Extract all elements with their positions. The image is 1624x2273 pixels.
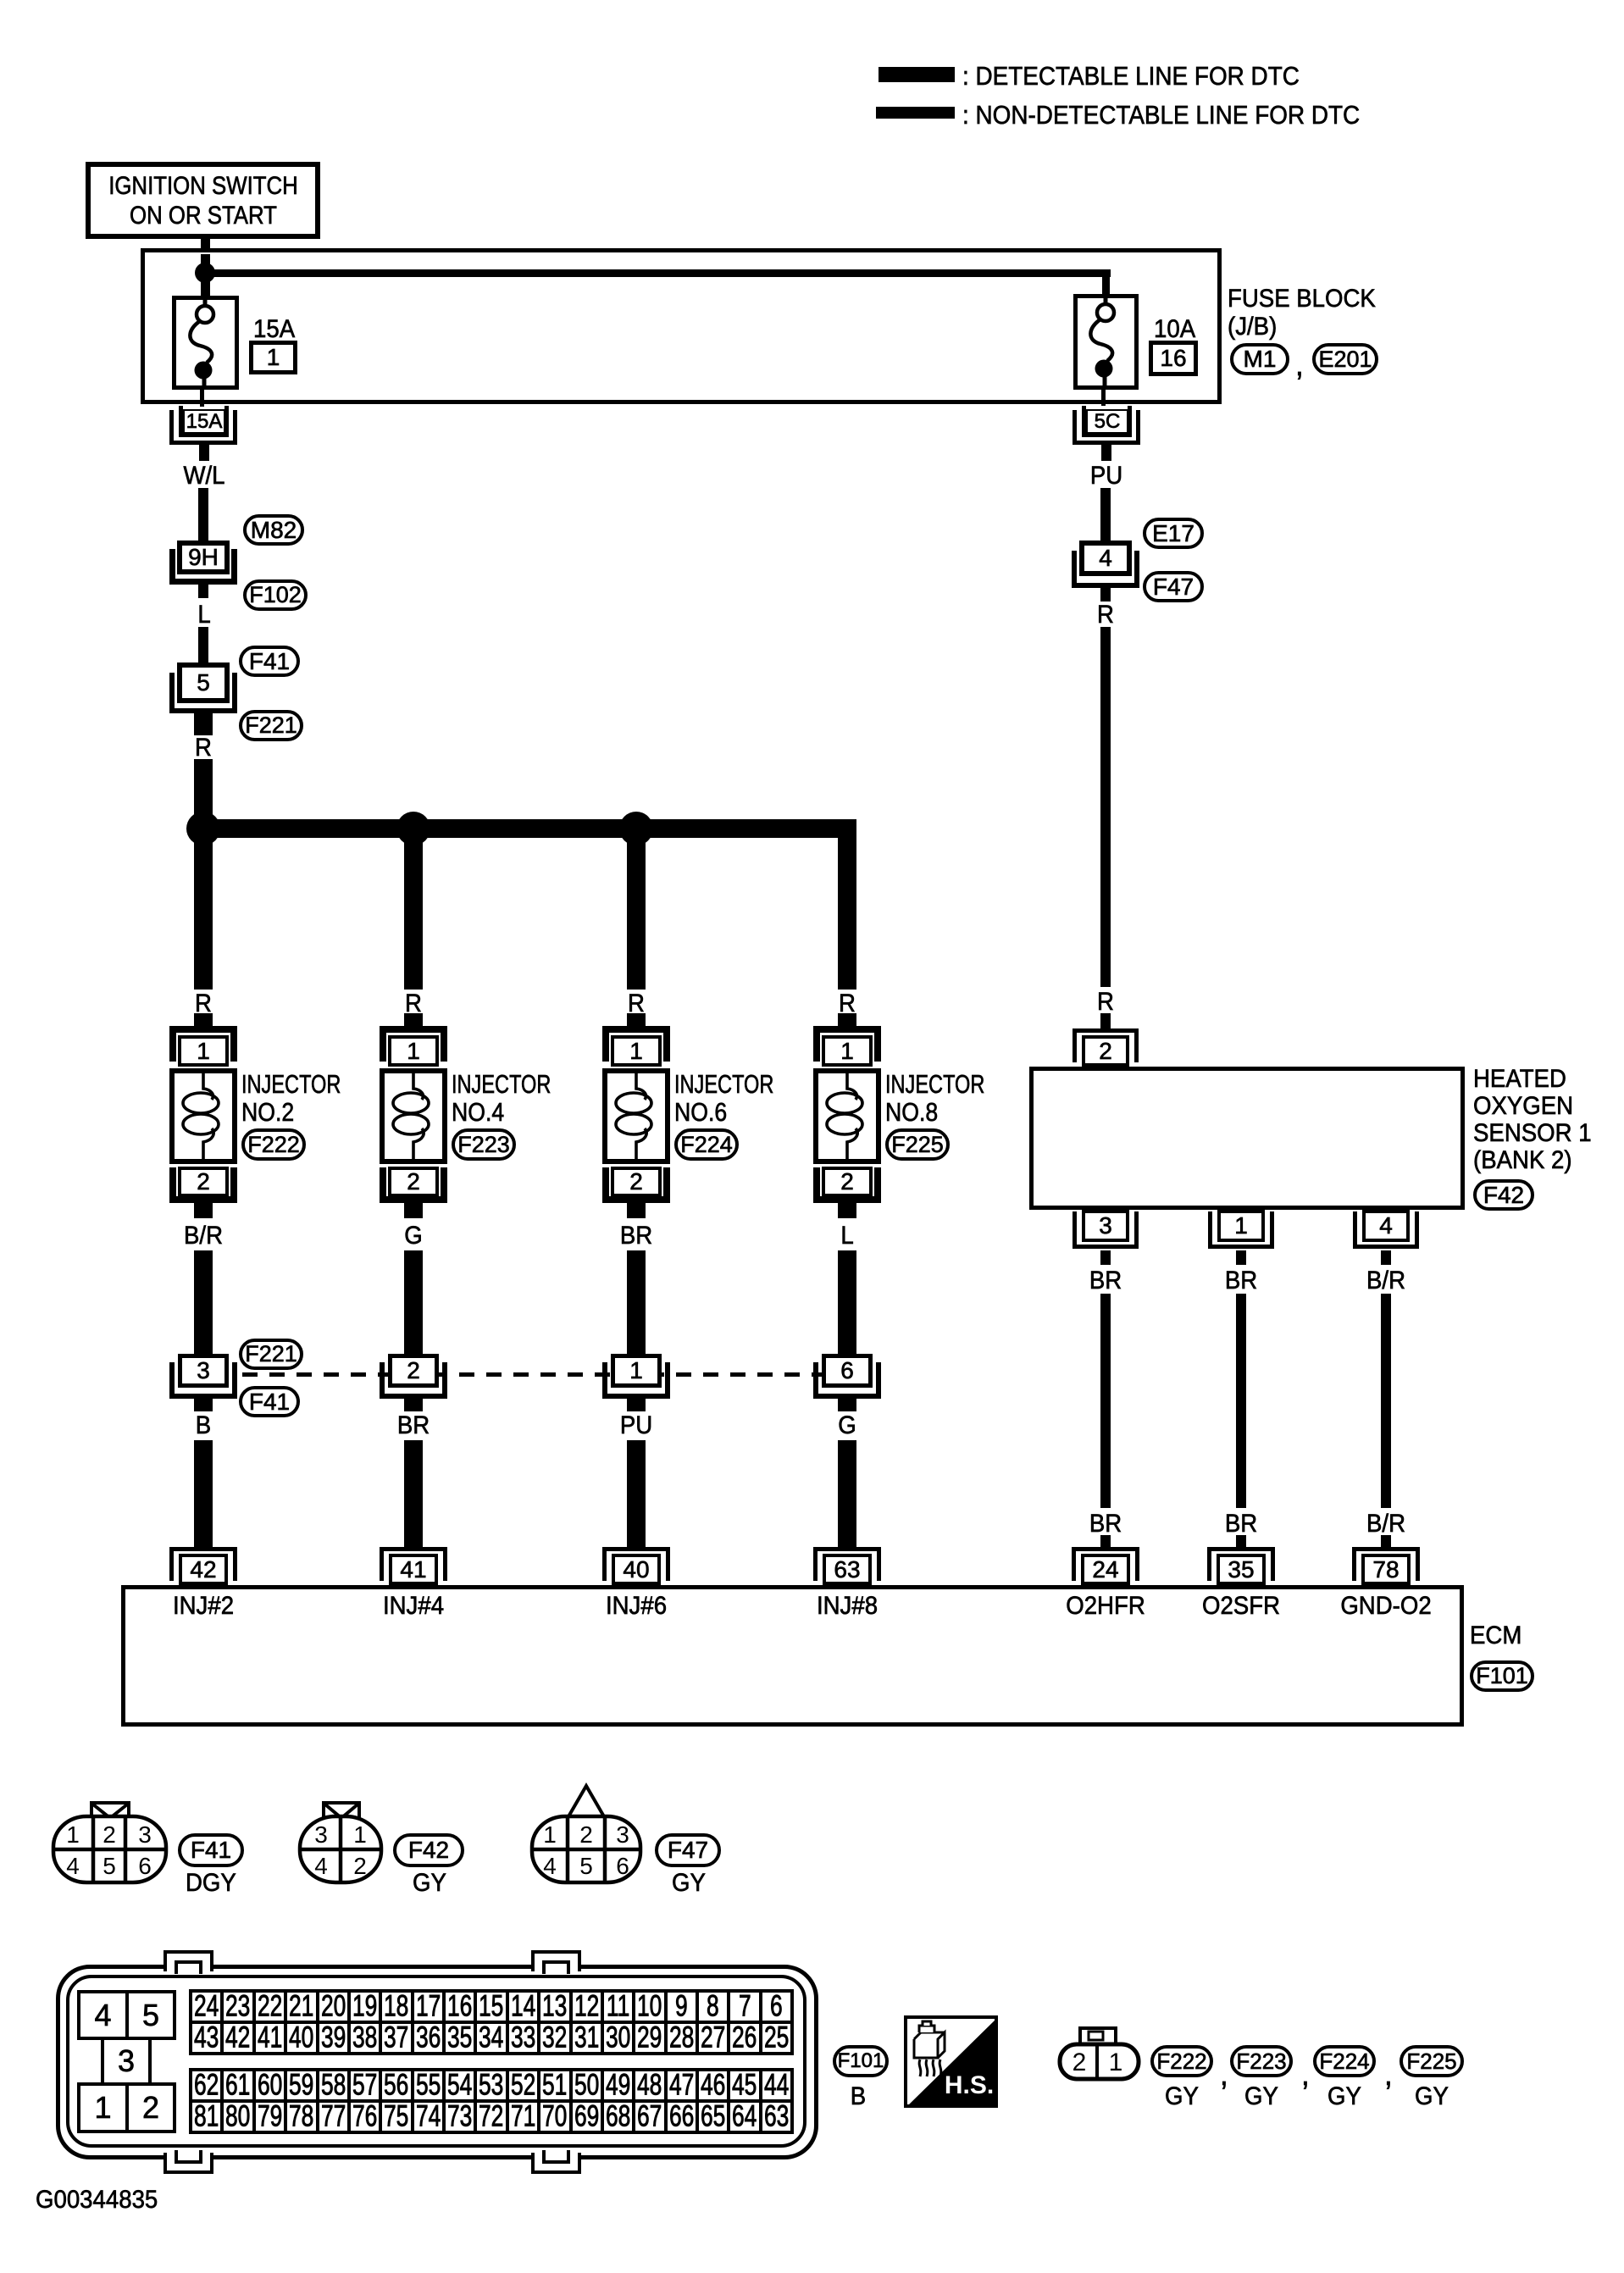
- ECM terminal name O2HFR: [1066, 1594, 1145, 1619]
- wire drop to 10A fuse: [1102, 269, 1110, 305]
- injector 6 coil winding: [602, 1068, 670, 1164]
- ECM connector top tab: [531, 1950, 581, 1971]
- injector 8 bottom bracket: [813, 1167, 881, 1203]
- connector face 2|1: [1055, 2025, 1148, 2084]
- svg-text:4: 4: [314, 1853, 328, 1879]
- wire stub below 9H: [198, 585, 208, 598]
- fuse 1 element: [172, 296, 239, 390]
- ECM connector face inner outline: [66, 1975, 806, 2148]
- fuse 1 15A body: [172, 296, 239, 390]
- wire color above ECM col5: [1089, 1511, 1122, 1537]
- svg-text:4: 4: [543, 1853, 557, 1879]
- sensor label line 3: [1473, 1121, 1592, 1146]
- injector 2 pin 1: [178, 1035, 229, 1067]
- ECM pin 35 outer bracket: [1207, 1547, 1275, 1581]
- comma 3: [1384, 2059, 1393, 2091]
- injector 8 top bracket: [813, 1026, 881, 1062]
- wire stub below O2 pin 4: [1381, 1250, 1391, 1265]
- connector ref E17: [1143, 518, 1204, 549]
- injector 4 top bracket: [380, 1026, 447, 1062]
- wire wire inline connector to ECM pin 2: [404, 1440, 423, 1547]
- connector ref F102: [243, 579, 308, 611]
- fuse block outline (J/B): [141, 248, 1222, 404]
- connector 5 bracket: [169, 673, 237, 713]
- wire color R col5 upper: [1097, 602, 1114, 628]
- injector 8 name: [885, 1071, 984, 1097]
- connector 5C box: [1086, 409, 1128, 434]
- wire PU wire to connector 4: [1100, 488, 1111, 541]
- connector ref M1: [1230, 343, 1289, 375]
- injector 6 bottom bracket: [602, 1167, 670, 1203]
- H.S. view symbol: [904, 2015, 998, 2108]
- fuse 1 number box: [249, 341, 297, 374]
- connector 4 box: [1079, 541, 1132, 576]
- svg-text:5: 5: [103, 1853, 116, 1879]
- fuse 16 10A body: [1073, 294, 1139, 390]
- wire stub below inline connector 3: [194, 1399, 213, 1411]
- ECM pin 40 box: [612, 1554, 661, 1585]
- wire wire injector 1 to inline connector: [194, 1250, 213, 1354]
- injector 2 coil winding: [169, 1068, 237, 1164]
- legend non-detectable bar: [876, 107, 955, 119]
- wire color L: [197, 602, 210, 628]
- svg-text:1: 1: [353, 1821, 367, 1848]
- wire wire O2 pin 4 to ECM: [1381, 1294, 1391, 1508]
- wire wire O2 pin 3 to ECM: [1100, 1294, 1111, 1508]
- wire color below inline connector 4: [838, 1413, 856, 1439]
- sensor label line 4: [1473, 1148, 1572, 1173]
- wire fuse 16 lead to connector: [1101, 385, 1106, 406]
- inline connector 1 bracket: [602, 1362, 670, 1399]
- connector ref F222: [241, 1128, 306, 1161]
- wire stub below connector 5: [194, 713, 213, 735]
- wire L wire to connector 5: [198, 627, 208, 662]
- fuse block title 2: [1228, 314, 1277, 340]
- connector ref F221 at inline row: [239, 1339, 303, 1370]
- wire injector supply bus: [194, 819, 856, 838]
- wire wire O2 pin 1 to ECM: [1236, 1294, 1246, 1508]
- O2 pin 3 outer bracket: [1073, 1211, 1139, 1249]
- inline connector 2 bracket: [380, 1362, 447, 1399]
- F47 face color: [672, 1871, 706, 1896]
- injector 2 top bracket: [169, 1026, 237, 1062]
- ECM connector face outline: [56, 1965, 818, 2159]
- wire stub below inline connector 2: [404, 1399, 423, 1411]
- O2 pin 2 outer bracket: [1073, 1028, 1139, 1062]
- wire color R col1: [195, 735, 212, 761]
- svg-text:2: 2: [579, 1821, 593, 1848]
- comma after M1: [1295, 349, 1304, 381]
- connector ref F223: [452, 1128, 516, 1161]
- wire color below O2 pin 3: [1089, 1268, 1122, 1294]
- svg-text:3: 3: [314, 1821, 328, 1848]
- injector 8 coil winding: [813, 1068, 881, 1164]
- connector face F42: [293, 1779, 429, 1898]
- ECM pin 42 box: [179, 1554, 228, 1585]
- dashed harness line F221/F41: [242, 1372, 825, 1377]
- ECM title: [1470, 1623, 1521, 1649]
- wire wire injector 4 to inline connector: [838, 1250, 856, 1354]
- connector ref E201: [1312, 343, 1378, 375]
- wire color R col4: [839, 991, 856, 1017]
- wire W/L wire to 9H: [198, 488, 208, 541]
- F225 face color: [1415, 2084, 1449, 2109]
- ECM connector top tab: [164, 1950, 213, 1971]
- wire fuse 1 lead to connector: [200, 385, 204, 407]
- injector 4 pin 2: [388, 1167, 439, 1197]
- connector ref F224: [674, 1128, 739, 1161]
- connector ref F222 face ref: [1150, 2045, 1213, 2077]
- connector ref F41 at inline row: [239, 1386, 300, 1417]
- svg-text:6: 6: [138, 1853, 152, 1879]
- ECM pin 78 box: [1361, 1554, 1411, 1585]
- O2 pin 1 outer bracket: [1208, 1211, 1274, 1249]
- wire stub below 5C: [1101, 445, 1111, 461]
- svg-text:2: 2: [353, 1853, 367, 1879]
- connector ref F42 face ref: [393, 1833, 464, 1867]
- sensor label line 2: [1473, 1094, 1573, 1119]
- wire color below injector 3: [620, 1223, 652, 1249]
- F223 face color: [1244, 2084, 1278, 2109]
- connector 15A box: [183, 409, 225, 434]
- injector 6 number: [674, 1099, 727, 1125]
- inline connector 2 box: [388, 1354, 439, 1388]
- ECM terminal name INJ#8: [817, 1594, 878, 1619]
- node bus junction 2: [396, 812, 430, 845]
- ECM terminal name INJ#4: [383, 1594, 444, 1619]
- svg-text:3: 3: [138, 1821, 152, 1848]
- wire color below O2 pin 1: [1225, 1268, 1257, 1294]
- ECM connector grid bank 1: [189, 1989, 794, 2055]
- connector ref F224 face ref: [1313, 2045, 1376, 2077]
- wire color below inline connector 2: [397, 1413, 430, 1439]
- connector 5 box: [177, 662, 230, 703]
- connector 15A inner bracket: [179, 406, 229, 437]
- injector 8 pin 1: [822, 1035, 873, 1067]
- wire color below injector 4: [840, 1223, 853, 1249]
- wire stub below injector 8: [838, 1203, 856, 1218]
- injector 4 bottom bracket: [380, 1167, 447, 1203]
- ECM pin 41 outer bracket: [380, 1547, 447, 1581]
- wire stub below injector 2: [194, 1203, 213, 1218]
- legend detectable bar: [879, 67, 955, 82]
- ECM pin 42 outer bracket: [169, 1547, 237, 1581]
- O2 pin 3 box: [1082, 1210, 1129, 1242]
- ECM pin 24 box: [1081, 1554, 1130, 1585]
- svg-text:3: 3: [616, 1821, 629, 1848]
- F222 face color: [1165, 2084, 1199, 2109]
- wire color above ECM col7: [1366, 1511, 1405, 1537]
- inline connector 6 bracket: [813, 1362, 881, 1399]
- ECM connector bottom tab: [164, 2153, 213, 2174]
- ECM box: [121, 1585, 1464, 1727]
- svg-text:1: 1: [1109, 2048, 1123, 2076]
- ECM pin 78 outer bracket: [1352, 1547, 1420, 1581]
- connector 9H box: [177, 541, 230, 574]
- wire stub above ECM pin col6: [1236, 1535, 1246, 1547]
- wire ignition to fuse block: [201, 234, 210, 305]
- svg-text:6: 6: [616, 1853, 629, 1879]
- connector ref F47 face ref: [655, 1833, 721, 1867]
- wire color R col1: [195, 991, 212, 1017]
- ECM pin 40 outer bracket: [602, 1547, 670, 1581]
- wire stub above injector 4: [838, 1013, 856, 1026]
- fuse 16 number box: [1149, 341, 1198, 376]
- connector ref F221 at connector 5: [239, 710, 303, 741]
- wire color PU: [1090, 463, 1122, 489]
- connector 5C inner bracket: [1082, 406, 1132, 437]
- injector 6 pin 1: [611, 1035, 662, 1067]
- wire color below injector 1: [184, 1223, 223, 1249]
- connector face F47: [525, 1771, 737, 1898]
- wire wire inline connector to ECM pin 4: [838, 1440, 856, 1547]
- wire bus to 10A fuse: [205, 269, 1111, 277]
- F101 face color: [851, 2084, 866, 2109]
- connector 15A outer bracket: [169, 410, 237, 445]
- wire stub below inline connector 6: [838, 1399, 856, 1411]
- wire bus drop col1: [194, 838, 213, 990]
- injector 4 number: [452, 1099, 504, 1125]
- wire stub above O2 pin 2: [1100, 1013, 1111, 1028]
- legend detectable text: [962, 63, 1300, 89]
- wire stub below 15A: [199, 445, 209, 461]
- inline connector 3 bracket: [169, 1362, 237, 1399]
- injector 6 coil body: [602, 1068, 670, 1164]
- heated oxygen sensor 1 (bank 2) box: [1029, 1067, 1465, 1210]
- wire color R col2: [405, 991, 422, 1017]
- ECM pin 41 box: [389, 1554, 438, 1585]
- injector 4 coil body: [380, 1068, 447, 1164]
- fuse block title: [1228, 286, 1376, 312]
- svg-text:2: 2: [103, 1821, 116, 1848]
- ECM connector key cells: [77, 1990, 129, 2040]
- injector 8 pin 2: [822, 1167, 873, 1197]
- wire color R col3: [628, 991, 645, 1017]
- comma 1: [1220, 2059, 1228, 2091]
- injector 6 pin 2: [611, 1167, 662, 1197]
- wire stub below inline connector 1: [627, 1399, 646, 1411]
- wire color below injector 2: [404, 1223, 422, 1249]
- O2 pin 1 box: [1217, 1210, 1265, 1242]
- wire color below O2 pin 4: [1366, 1268, 1405, 1294]
- wire color R col5 lower: [1097, 990, 1114, 1015]
- wire stub below injector 4: [404, 1203, 423, 1218]
- injector 4 name: [452, 1071, 551, 1097]
- injector 6 name: [674, 1071, 773, 1097]
- svg-text:1: 1: [543, 1821, 557, 1848]
- svg-text:5: 5: [579, 1853, 593, 1879]
- injector 2 pin 2: [178, 1167, 229, 1197]
- injector 4 pin 1: [388, 1035, 439, 1067]
- wire bus drop col3: [627, 838, 646, 990]
- ECM pin 35 box: [1217, 1554, 1266, 1585]
- wire bus drop col2: [404, 838, 423, 990]
- svg-text:2: 2: [1073, 2048, 1087, 2076]
- connector ref F225 face ref: [1400, 2045, 1464, 2077]
- ECM terminal name INJ#2: [173, 1594, 234, 1619]
- connector ref F101 face ref: [833, 2045, 889, 2077]
- F42 face color: [413, 1871, 446, 1896]
- inline connector 6 box: [822, 1354, 873, 1388]
- comma 2: [1301, 2059, 1310, 2091]
- ECM pin 63 outer bracket: [813, 1547, 881, 1581]
- wire stub above injector 1: [194, 1013, 213, 1026]
- wire bus drop col4: [838, 838, 856, 990]
- O2 pin 2 box: [1082, 1035, 1129, 1067]
- ECM connector bottom tab: [531, 2153, 581, 2174]
- wire R wire to bus: [194, 759, 213, 819]
- injector 2 name: [241, 1071, 341, 1097]
- legend non-detectable text: [962, 102, 1360, 128]
- wire wire inline connector to ECM pin 1: [194, 1440, 213, 1547]
- injector 2 bottom bracket: [169, 1167, 237, 1203]
- wire stub above injector 2: [404, 1013, 423, 1026]
- injector 8 number: [885, 1099, 938, 1125]
- wire stub below O2 pin 1: [1236, 1250, 1246, 1265]
- wire wire injector 2 to inline connector: [404, 1250, 423, 1354]
- injector 2 number: [241, 1099, 294, 1125]
- ECM terminal name INJ#6: [606, 1594, 667, 1619]
- wire stub below injector 6: [627, 1203, 646, 1218]
- node junction at fuse block: [195, 263, 215, 283]
- wire stub below connector 4: [1100, 588, 1111, 602]
- wire stub above ECM pin col7: [1381, 1535, 1391, 1547]
- ECM terminal name O2SFR: [1202, 1594, 1280, 1619]
- wire color above ECM col6: [1225, 1511, 1257, 1537]
- inline connector 1 box: [611, 1354, 662, 1388]
- injector 4 coil winding: [380, 1068, 447, 1164]
- O2 pin 4 outer bracket: [1353, 1211, 1419, 1249]
- ECM connector grid bank 2: [189, 2068, 794, 2134]
- connector ref F101 at ECM: [1470, 1660, 1534, 1692]
- connector ref F41 at connector 5: [239, 646, 300, 677]
- connector ref F47 at connector 4: [1143, 571, 1204, 602]
- connector ref F41 face ref: [178, 1833, 244, 1867]
- connector 5C outer bracket: [1073, 410, 1140, 445]
- inline connector 3 box: [178, 1354, 229, 1388]
- connector 4 bracket: [1072, 551, 1139, 588]
- wire wire inline connector to ECM pin 3: [627, 1440, 646, 1547]
- O2 pin 4 box: [1362, 1210, 1410, 1242]
- wire color below inline connector 3: [620, 1413, 652, 1439]
- wire stub below O2 pin 3: [1100, 1250, 1111, 1265]
- connector ref F223 face ref: [1230, 2045, 1293, 2077]
- svg-text:H.S.: H.S.: [945, 2071, 994, 2099]
- figure number: [36, 2187, 158, 2213]
- connector ref M82: [243, 514, 304, 546]
- fuse 16 rating 10A: [1154, 317, 1195, 342]
- fuse 16 element: [1073, 294, 1139, 390]
- ECM pin 63 box: [823, 1554, 872, 1585]
- connector face F41: [47, 1779, 258, 1898]
- wire stub above injector 3: [627, 1013, 646, 1026]
- connector ref F42 at sensor: [1473, 1179, 1534, 1211]
- ECM pin 24 outer bracket: [1072, 1547, 1139, 1581]
- injector 8 coil body: [813, 1068, 881, 1164]
- connector ref F225: [885, 1128, 950, 1161]
- ignition switch box: [86, 162, 320, 239]
- sensor label line 1: [1473, 1067, 1566, 1092]
- wire color W/L: [183, 463, 224, 489]
- injector 2 coil body: [169, 1068, 237, 1164]
- svg-text:4: 4: [66, 1853, 80, 1879]
- F41 face color: [186, 1871, 236, 1896]
- connector 9H bracket: [169, 549, 237, 585]
- wire wire injector 3 to inline connector: [627, 1250, 646, 1354]
- svg-text:1: 1: [66, 1821, 80, 1848]
- fuse 1 rating 15A: [253, 317, 295, 342]
- wire color below inline connector 1: [196, 1413, 211, 1439]
- injector 6 top bracket: [602, 1026, 670, 1062]
- wire R wire to O2 sensor: [1100, 627, 1111, 987]
- ECM terminal name GND-O2: [1340, 1594, 1431, 1619]
- wire ignition feed inside fuse block: [201, 254, 210, 305]
- F224 face color: [1327, 2084, 1361, 2109]
- wire stub above ECM pin col5: [1100, 1535, 1111, 1547]
- node bus junction 3: [619, 812, 653, 845]
- node bus junction 1: [186, 812, 220, 845]
